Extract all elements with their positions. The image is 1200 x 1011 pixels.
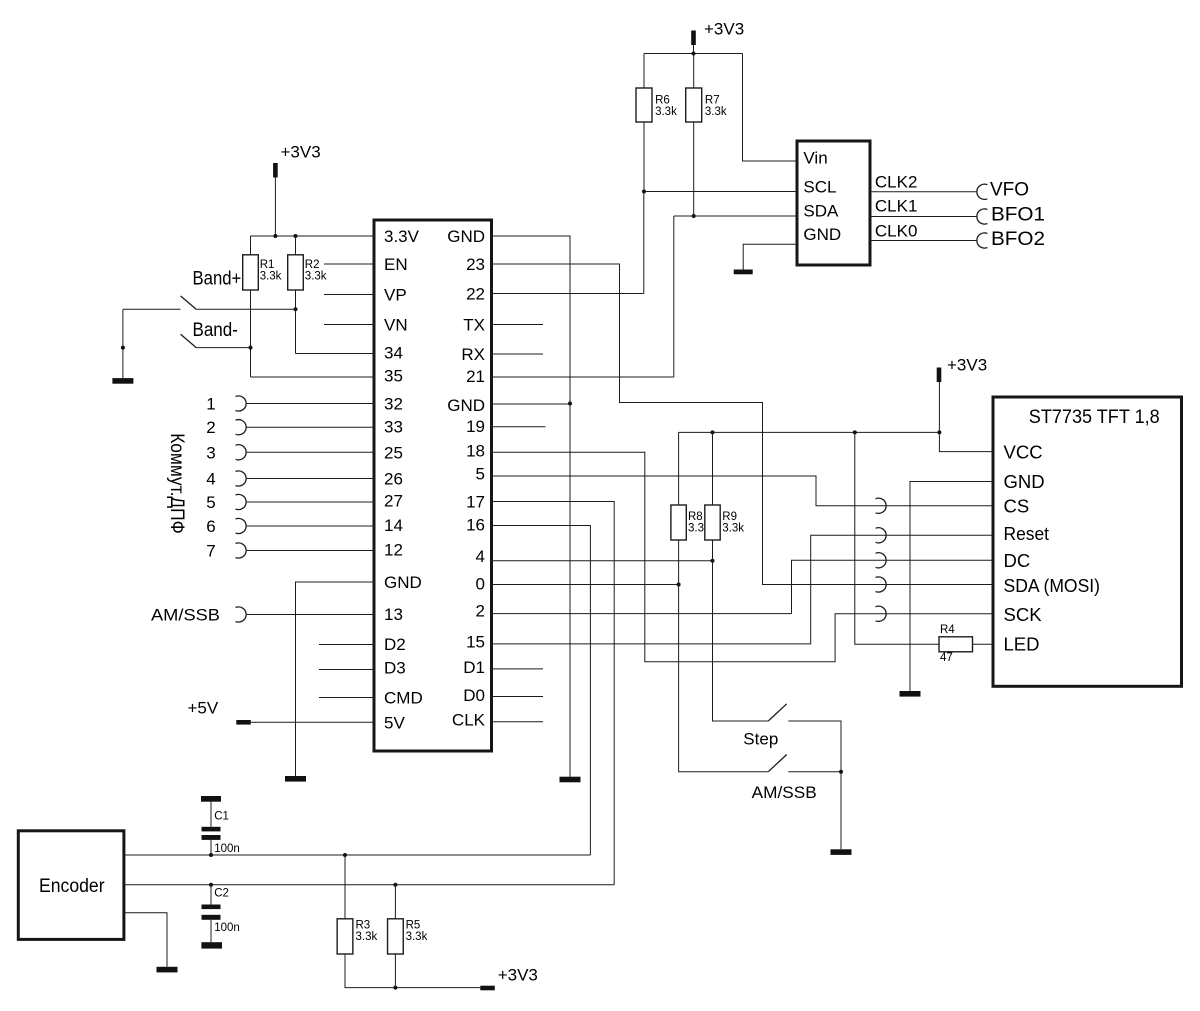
svg-text:CLK2: CLK2 bbox=[875, 173, 918, 192]
svg-text:LED: LED bbox=[1004, 634, 1040, 655]
svg-text:35: 35 bbox=[384, 367, 403, 386]
svg-text:+3V3: +3V3 bbox=[498, 966, 538, 985]
svg-text:16: 16 bbox=[466, 516, 485, 535]
svg-text:SDA: SDA bbox=[803, 202, 839, 221]
svg-text:Reset: Reset bbox=[1004, 523, 1050, 544]
svg-text:CLK1: CLK1 bbox=[875, 197, 918, 216]
resistor R5 bbox=[388, 919, 404, 954]
wire R9 bottom lead to Step switch bbox=[713, 540, 769, 721]
svg-text:3.3V: 3.3V bbox=[384, 227, 420, 246]
wire connector 4 to MCU bbox=[246, 478, 374, 480]
connector arc TFT SDA bbox=[876, 577, 887, 592]
svg-text:GND: GND bbox=[1004, 471, 1045, 492]
resistor R6 bbox=[636, 88, 652, 122]
svg-text:VFO: VFO bbox=[990, 180, 1029, 201]
pin D0 stub bbox=[492, 696, 544, 698]
svg-text:7: 7 bbox=[206, 542, 215, 561]
junction R3/R5 bottom rail bbox=[393, 986, 397, 990]
svg-text:GND: GND bbox=[384, 573, 422, 592]
svg-text:32: 32 bbox=[384, 395, 403, 414]
wire to MCU pin 35 bbox=[251, 376, 375, 378]
svg-text:17: 17 bbox=[466, 493, 485, 512]
IC U2 Si5351 clockgen body bbox=[797, 141, 870, 265]
pin EN stub bbox=[324, 263, 374, 265]
wire C2 upper lead bbox=[210, 885, 212, 905]
svg-text:ST7735 TFT 1,8: ST7735 TFT 1,8 bbox=[1029, 407, 1160, 428]
connector VFO socket arc bbox=[977, 184, 988, 199]
ground (MCU left GND) bbox=[285, 776, 306, 782]
wire R2 top lead bbox=[295, 236, 297, 255]
wire R8 top lead bbox=[678, 432, 680, 505]
labels U2 pins bbox=[803, 149, 841, 245]
svg-text:BFO1: BFO1 bbox=[991, 205, 1045, 226]
svg-text:6: 6 bbox=[206, 517, 215, 536]
svg-text:Band+: Band+ bbox=[193, 269, 242, 290]
svg-text:25: 25 bbox=[384, 443, 403, 462]
wire pin15 to TFT Reset bbox=[492, 535, 994, 644]
connector pin 4 socket arc bbox=[236, 471, 247, 486]
junction rail / +3V3 bbox=[692, 52, 696, 56]
ground (U2) bbox=[734, 270, 753, 275]
wire SCL row bbox=[644, 191, 797, 193]
svg-text:DC: DC bbox=[1004, 550, 1031, 571]
switch SW Band- blade bbox=[181, 334, 197, 347]
svg-text:SCL: SCL bbox=[803, 178, 836, 197]
svg-text:R1: R1 bbox=[260, 259, 275, 271]
svg-text:R6: R6 bbox=[655, 95, 670, 107]
wire pin2 riser to DC bbox=[792, 560, 994, 613]
svg-text:Vin: Vin bbox=[803, 149, 827, 168]
connector arc TFT DC bbox=[876, 553, 887, 568]
svg-text:R7: R7 bbox=[705, 95, 720, 107]
junction GND net bbox=[568, 402, 572, 406]
svg-text:EN: EN bbox=[384, 255, 408, 274]
wire R6 bottom lead bbox=[643, 122, 645, 192]
svg-text:C2: C2 bbox=[214, 888, 229, 900]
svg-text:13: 13 bbox=[384, 605, 403, 624]
svg-text:C1: C1 bbox=[214, 811, 229, 823]
svg-text:SDA (MOSI): SDA (MOSI) bbox=[1004, 575, 1101, 596]
power flag +3V3 (top center) bbox=[691, 31, 696, 46]
svg-text:D3: D3 bbox=[384, 659, 406, 678]
wire C1 lower lead bbox=[210, 840, 212, 855]
svg-text:47: 47 bbox=[940, 652, 953, 664]
encoder block body bbox=[18, 831, 124, 940]
svg-text:SCK: SCK bbox=[1004, 604, 1043, 625]
svg-text:18: 18 bbox=[466, 442, 485, 461]
power flag +5V bar bbox=[236, 720, 251, 725]
wire R9 top lead bbox=[712, 432, 714, 505]
switch SW Step blade bbox=[768, 704, 786, 721]
junction bus / R9 bbox=[711, 430, 715, 434]
svg-text:R3: R3 bbox=[356, 920, 371, 932]
power flag +3V3 (TFT) bbox=[937, 368, 942, 383]
wire +3V3 drop to 3.3V rail bbox=[274, 178, 276, 237]
connector pin 7 socket arc bbox=[236, 543, 247, 558]
svg-text:+3V3: +3V3 bbox=[281, 143, 321, 162]
svg-text:CS: CS bbox=[1004, 495, 1030, 516]
svg-text:100n: 100n bbox=[214, 843, 240, 855]
svg-text:12: 12 bbox=[384, 541, 403, 560]
wire R8 bottom lead to AM/SSB switch bbox=[679, 540, 769, 772]
wire VCC feed bbox=[939, 432, 993, 451]
wire MCU GND(top right) down bbox=[492, 236, 571, 777]
switch SW Band+ blade bbox=[181, 296, 197, 309]
svg-text:19: 19 bbox=[466, 417, 485, 436]
resistor R3 bbox=[337, 919, 353, 954]
wire R7 bottom lead bbox=[693, 122, 695, 216]
wire Vin feed bbox=[743, 54, 798, 162]
pin D1 stub bbox=[492, 668, 544, 670]
pin D2 stub bbox=[319, 644, 374, 646]
wire MCU pin 2 out bbox=[492, 613, 792, 615]
display U3 ST7735 body bbox=[993, 397, 1182, 686]
junction bus / LED feed bbox=[853, 430, 857, 434]
junction C1 / encoder A bbox=[209, 853, 213, 857]
connector arc TFT Reset bbox=[876, 528, 887, 543]
wire TFT GND to ground bbox=[910, 482, 993, 692]
connector pin 6 socket arc bbox=[236, 518, 247, 533]
wire pin17 to encoder B bbox=[492, 502, 615, 885]
resistor R2 bbox=[288, 255, 304, 290]
pin 19 stub bbox=[492, 426, 546, 428]
wire pin18 to TFT SCK bbox=[492, 452, 994, 662]
svg-text:15: 15 bbox=[466, 633, 485, 652]
wire SCL vertical to pin22 row bbox=[643, 192, 645, 294]
junction R1 lead / Band- wire bbox=[249, 346, 253, 350]
wire R4 to TFT LED bbox=[973, 643, 994, 645]
junction R3 / encoder A bbox=[343, 853, 347, 857]
wire pin16 to encoder A bbox=[492, 526, 591, 856]
MCU U1 pin name labels bbox=[384, 227, 486, 732]
wire R1 bottom lead to pin35 corner bbox=[250, 290, 252, 377]
connector pin 3 socket arc bbox=[236, 445, 247, 460]
svg-text:R5: R5 bbox=[406, 920, 421, 932]
svg-text:CLK: CLK bbox=[452, 711, 486, 730]
pin VN stub bbox=[324, 324, 374, 326]
svg-text:BFO2: BFO2 bbox=[991, 229, 1045, 250]
wire R3 top lead bbox=[344, 855, 346, 919]
wire U2 GND pin bbox=[743, 244, 797, 269]
wire R3 bottom lead bbox=[345, 954, 481, 988]
svg-text:34: 34 bbox=[384, 344, 403, 363]
svg-text:GND: GND bbox=[447, 396, 485, 415]
wire connector 7 to MCU bbox=[246, 550, 374, 552]
svg-text:3: 3 bbox=[206, 443, 215, 462]
junction pin0 / R8 bbox=[677, 583, 681, 587]
resistor R9 bbox=[705, 505, 720, 540]
svg-text:2: 2 bbox=[206, 418, 215, 437]
pin CMD stub bbox=[319, 697, 374, 699]
svg-text:+3V3: +3V3 bbox=[947, 356, 987, 375]
wire connector 1 to MCU bbox=[246, 403, 374, 405]
svg-text:3.3k: 3.3k bbox=[406, 931, 428, 943]
junction 3V3 rail / power drop bbox=[273, 234, 277, 238]
capacitor C2 plates bbox=[202, 905, 221, 920]
connector BFO1 socket arc bbox=[977, 209, 988, 224]
wire R7 top lead bbox=[693, 54, 695, 89]
wire MCU pin 0 to R8 bbox=[492, 584, 679, 586]
ground (TFT) bbox=[900, 691, 921, 697]
svg-text:22: 22 bbox=[466, 285, 485, 304]
connector pin 5 socket arc bbox=[236, 494, 247, 509]
wire C1 upper lead bbox=[210, 802, 212, 827]
resistor R8 bbox=[671, 505, 686, 540]
resistor R1 bbox=[243, 255, 259, 290]
svg-text:Encoder: Encoder bbox=[39, 876, 105, 897]
power flag +3V3 (bottom) bbox=[480, 986, 495, 991]
pin RX stub bbox=[492, 353, 544, 355]
labels U3 pins bbox=[1004, 442, 1101, 655]
wire AM/SSB right side bbox=[788, 771, 841, 773]
svg-text:RX: RX bbox=[461, 345, 485, 364]
wire pin23 to TFT SDA (MOSI) bbox=[492, 264, 994, 585]
wire C2 lower lead bbox=[210, 920, 212, 942]
switch SW Band+ left wire bbox=[123, 308, 181, 310]
junction R6 / SCL bbox=[642, 190, 646, 194]
wire +3V3 to R4 bbox=[855, 432, 939, 644]
svg-text:4: 4 bbox=[206, 470, 215, 489]
connector arc TFT SCK bbox=[876, 606, 887, 621]
wire MCU pin 22 to SCL bbox=[492, 293, 644, 295]
svg-text:VCC: VCC bbox=[1004, 442, 1043, 463]
svg-text:26: 26 bbox=[384, 470, 403, 489]
wire SDA vertical to pin21 row bbox=[673, 216, 675, 377]
labels 1-7 (DPF switch pins) bbox=[206, 395, 215, 561]
svg-text:Коммут.ДПФ: Коммут.ДПФ bbox=[166, 433, 187, 534]
ground (encoder) bbox=[157, 967, 178, 973]
svg-text:2: 2 bbox=[476, 602, 485, 621]
svg-text:AM/SSB: AM/SSB bbox=[151, 606, 220, 625]
svg-text:AM/SSB: AM/SSB bbox=[752, 783, 817, 802]
wire power to I2C rail bbox=[693, 45, 695, 54]
ground (MCU right GND) bbox=[560, 777, 581, 783]
capacitor C1 plates bbox=[202, 827, 221, 840]
pin VP stub bbox=[324, 294, 374, 296]
svg-text:+3V3: +3V3 bbox=[704, 20, 744, 39]
labels CLK outputs bbox=[875, 173, 918, 241]
wire CLK2 to VFO bbox=[870, 191, 977, 193]
wire AM/SSB connector to MCU pin 13 bbox=[246, 614, 374, 616]
junction R5 / encoder B bbox=[393, 883, 397, 887]
connector AM/SSB socket arc bbox=[236, 607, 247, 622]
svg-text:3.3k: 3.3k bbox=[705, 106, 727, 118]
wire Band+ to R2 junction bbox=[196, 308, 295, 310]
svg-text:1: 1 bbox=[206, 395, 215, 414]
connector pin 1 socket arc bbox=[236, 396, 247, 411]
svg-text:R4: R4 bbox=[940, 624, 955, 636]
svg-text:D2: D2 bbox=[384, 635, 406, 654]
svg-text:3.3k: 3.3k bbox=[305, 271, 327, 283]
svg-text:+5V: +5V bbox=[188, 699, 219, 718]
svg-text:CLK0: CLK0 bbox=[875, 222, 918, 241]
wire connector 5 to MCU bbox=[246, 501, 374, 503]
wire encoder ground pin bbox=[124, 913, 167, 967]
svg-text:27: 27 bbox=[384, 492, 403, 511]
svg-text:5V: 5V bbox=[384, 713, 405, 732]
wire MCU GND(2nd right) bbox=[492, 403, 571, 405]
connector arc TFT CS bbox=[876, 498, 887, 513]
svg-text:33: 33 bbox=[384, 418, 403, 437]
svg-text:14: 14 bbox=[384, 516, 403, 535]
wire encoder B row bbox=[124, 884, 614, 886]
wire connector 6 to MCU bbox=[246, 525, 374, 527]
wire CLK1 to BFO1 bbox=[870, 216, 977, 218]
pin D3 stub bbox=[319, 669, 374, 671]
wire pin5 to TFT CS bbox=[492, 476, 994, 506]
svg-text:GND: GND bbox=[803, 225, 841, 244]
wire to MCU pin 34 bbox=[296, 353, 375, 355]
svg-text:4: 4 bbox=[476, 547, 485, 566]
resistor R4 bbox=[939, 637, 973, 652]
wire Step right side bbox=[788, 721, 841, 849]
svg-text:5: 5 bbox=[476, 465, 485, 484]
junction left vertical / Band- wire bbox=[121, 346, 125, 350]
wire R6 top lead bbox=[643, 54, 645, 89]
wire connector 3 to MCU bbox=[246, 451, 374, 453]
svg-text:R9: R9 bbox=[722, 511, 737, 523]
svg-text:VN: VN bbox=[384, 316, 408, 335]
svg-text:TX: TX bbox=[463, 316, 485, 335]
svg-text:3.3k: 3.3k bbox=[655, 106, 677, 118]
wire I2C pullup rail bbox=[644, 53, 743, 55]
power flag +3V3 (top left) bbox=[273, 163, 278, 178]
wire R5 top lead bbox=[394, 885, 396, 919]
wire R5 bottom lead bbox=[394, 954, 396, 988]
svg-text:R2: R2 bbox=[305, 259, 320, 271]
junction pin4 / R9 bbox=[711, 559, 715, 563]
svg-text:VP: VP bbox=[384, 286, 407, 305]
wire MCU pin 4 to R9 bbox=[492, 560, 713, 562]
svg-text:GND: GND bbox=[447, 227, 485, 246]
svg-text:Step: Step bbox=[743, 730, 778, 749]
wire MCU GND(left) to ground bbox=[296, 582, 375, 776]
wire encoder A row bbox=[124, 854, 591, 856]
switch SW AM/SSB blade bbox=[768, 755, 786, 772]
junction R7 / SDA bbox=[692, 214, 696, 218]
junction switches common bbox=[839, 770, 843, 774]
pin CLK stub bbox=[492, 721, 544, 723]
wire R2 bottom lead to pin34 corner bbox=[295, 290, 297, 354]
svg-text:CMD: CMD bbox=[384, 689, 423, 708]
wire +5V to MCU pin 5V bbox=[251, 721, 374, 723]
wire Band- to R1 junction bbox=[196, 347, 250, 349]
svg-text:Band-: Band- bbox=[193, 320, 238, 341]
capacitor C1 ground bar bbox=[201, 796, 221, 802]
svg-text:100n: 100n bbox=[214, 922, 240, 934]
connector pin 2 socket arc bbox=[236, 420, 247, 435]
wire R1 top lead bbox=[250, 236, 252, 255]
junction 3V3 rail / R2 top bbox=[294, 234, 298, 238]
svg-text:3.3k: 3.3k bbox=[356, 931, 378, 943]
svg-text:21: 21 bbox=[466, 367, 485, 386]
junction R2 lead / Band+ wire bbox=[294, 307, 298, 311]
wire connector 2 to MCU bbox=[246, 426, 374, 428]
svg-text:D0: D0 bbox=[463, 686, 485, 705]
wire SDA row bbox=[674, 215, 797, 217]
svg-text:23: 23 bbox=[466, 255, 485, 274]
wire MCU pin 21 to SDA bbox=[492, 376, 674, 378]
wire CLK0 to BFO2 bbox=[870, 240, 977, 242]
svg-text:R8: R8 bbox=[688, 511, 703, 523]
junction C2 / encoder B bbox=[209, 883, 213, 887]
pin TX stub bbox=[492, 324, 544, 326]
wire +3V3 drop to bus bbox=[938, 382, 940, 432]
wire Band+/Band- left vertical bbox=[122, 309, 124, 378]
wire 3.3V rail to MCU pin 3.3V bbox=[251, 235, 375, 237]
svg-text:3.3k: 3.3k bbox=[722, 523, 744, 535]
svg-text:D1: D1 bbox=[463, 658, 485, 677]
junction bus / VCC feed bbox=[937, 430, 941, 434]
MCU U1 ESP32 module body bbox=[374, 220, 492, 751]
connector BFO2 socket arc bbox=[977, 233, 988, 248]
svg-text:5: 5 bbox=[206, 493, 215, 512]
wire pullup bus bbox=[679, 431, 940, 433]
capacitor C2 ground bar bbox=[201, 942, 222, 948]
ground (Band switches) bbox=[112, 378, 133, 384]
svg-text:3.3k: 3.3k bbox=[260, 271, 282, 283]
ground (switches) bbox=[831, 849, 852, 855]
resistor R7 bbox=[686, 88, 702, 122]
svg-text:0: 0 bbox=[476, 575, 485, 594]
